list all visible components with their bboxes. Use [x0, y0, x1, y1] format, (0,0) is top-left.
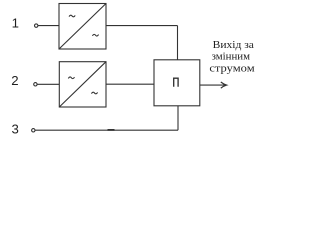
- converter U2 output tilde: [91, 92, 97, 94]
- svg-text:1: 1: [12, 16, 19, 31]
- converter U1 box: [59, 4, 106, 50]
- inverter P letter: [174, 78, 178, 87]
- svg-text:Вихід за: Вихід за: [213, 39, 254, 51]
- inverter P box: [154, 60, 200, 106]
- wire P output: [200, 84, 226, 86]
- wire U1 output horizontal: [106, 25, 178, 27]
- converter U1 input tilde: [69, 15, 75, 17]
- converter U2 input tilde: [68, 77, 74, 79]
- svg-text:струмом: струмом: [209, 63, 254, 75]
- converter U1 diagonal: [59, 4, 106, 50]
- wire terminal2 to U2: [37, 83, 59, 85]
- wire U2 output to P: [106, 83, 154, 85]
- converter U1 output tilde: [92, 34, 98, 36]
- arrowhead output: [221, 82, 227, 88]
- terminal 3: [32, 129, 35, 132]
- wire junction dash on wire 3: [108, 129, 115, 131]
- wire terminal1 to U1: [38, 25, 59, 27]
- wire terminal3 horizontal: [35, 129, 178, 131]
- converter U2 diagonal: [59, 62, 106, 107]
- terminal 1: [35, 24, 38, 27]
- converter U2 box: [59, 62, 106, 107]
- terminal 2: [34, 83, 37, 86]
- svg-text:2: 2: [11, 73, 18, 88]
- wire terminal3 vertical to P bottom: [177, 106, 179, 130]
- wire U1 output vertical to P: [177, 26, 179, 60]
- svg-text:змінним: змінним: [212, 51, 250, 63]
- svg-text:3: 3: [12, 122, 19, 137]
